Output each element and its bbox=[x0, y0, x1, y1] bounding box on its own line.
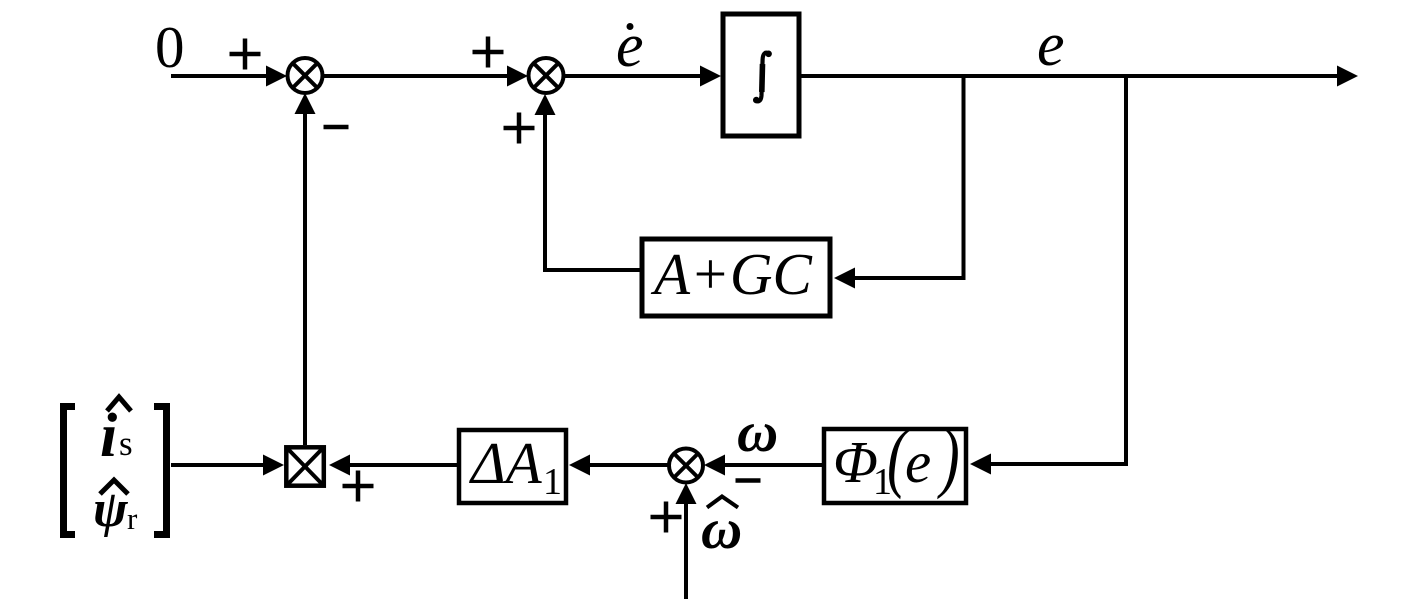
svg-text:e: e bbox=[905, 429, 931, 495]
svg-text:r: r bbox=[127, 501, 138, 536]
svg-text:): ) bbox=[937, 414, 960, 501]
svg-text:Φ: Φ bbox=[833, 429, 878, 495]
svg-text:i: i bbox=[100, 402, 117, 470]
svg-text:ψ: ψ bbox=[93, 481, 129, 538]
svg-text:A+GC: A+GC bbox=[650, 241, 812, 307]
svg-text:e: e bbox=[616, 12, 644, 80]
svg-text:ω: ω bbox=[701, 498, 742, 561]
svg-text:e: e bbox=[1037, 11, 1065, 79]
svg-text:0: 0 bbox=[155, 14, 185, 80]
svg-text:1: 1 bbox=[543, 461, 562, 503]
svg-text:ω: ω bbox=[737, 401, 778, 464]
svg-text:ΔA: ΔA bbox=[469, 430, 543, 496]
svg-text:s: s bbox=[119, 424, 133, 463]
